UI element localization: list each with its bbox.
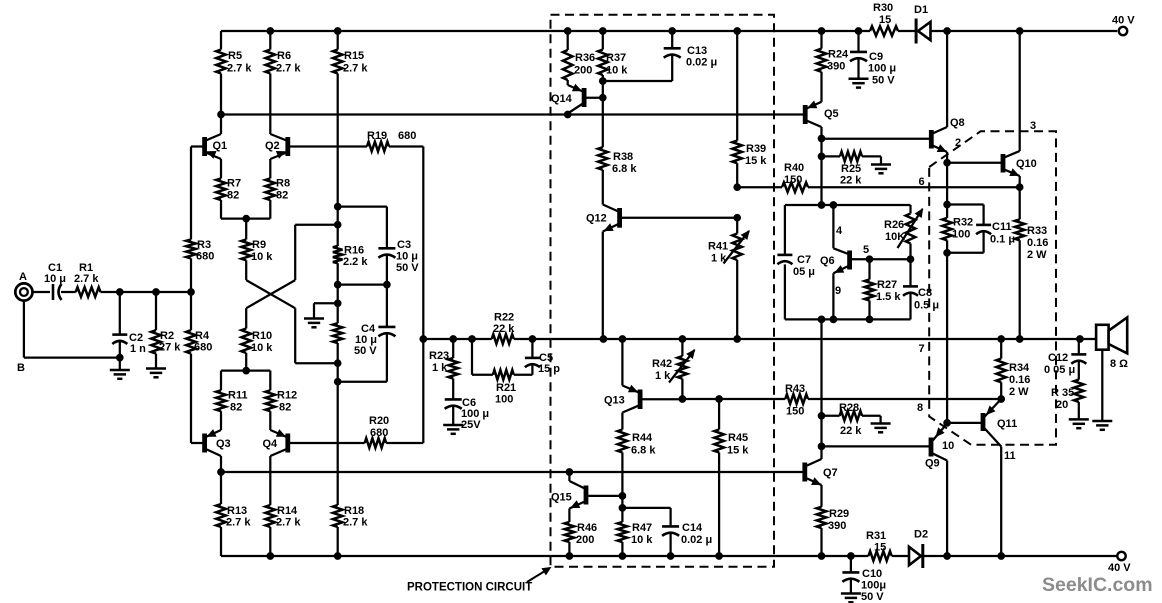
wire bias box to Q7 collector node bbox=[818, 319, 929, 449]
svg-text:Q10: Q10 bbox=[1016, 158, 1037, 170]
resistor R27 bbox=[865, 259, 902, 319]
svg-text:R5: R5 bbox=[228, 50, 242, 62]
svg-text:22 k: 22 k bbox=[840, 175, 862, 187]
capacitor C14 bbox=[622, 508, 712, 556]
resistor R9 bbox=[241, 219, 273, 281]
svg-text:R39: R39 bbox=[746, 143, 766, 155]
capacitor C12 bbox=[1044, 339, 1086, 380]
svg-text:0 05 μ: 0 05 μ bbox=[1044, 364, 1075, 376]
label B bbox=[17, 362, 25, 374]
svg-text:0.1 μ: 0.1 μ bbox=[990, 234, 1015, 246]
transistor Q2 bbox=[265, 134, 367, 178]
svg-text:R27: R27 bbox=[877, 279, 897, 291]
resistor R2 bbox=[151, 292, 181, 369]
svg-text:C12: C12 bbox=[1048, 352, 1068, 364]
svg-text:R43: R43 bbox=[785, 383, 805, 395]
resistor R6 bbox=[266, 31, 302, 134]
pin label 9 bbox=[835, 285, 841, 297]
resistor R11 bbox=[216, 390, 247, 428]
pin label 6 bbox=[919, 176, 925, 188]
svg-text:2.7 k: 2.7 k bbox=[276, 63, 301, 75]
svg-text:100μ: 100μ bbox=[861, 580, 886, 592]
transistor Q14 bbox=[551, 81, 606, 115]
svg-text:150: 150 bbox=[784, 174, 802, 186]
svg-text:10K: 10K bbox=[885, 231, 905, 243]
svg-text:Q3: Q3 bbox=[216, 438, 231, 450]
svg-text:R40: R40 bbox=[784, 162, 804, 174]
terminal A input bbox=[15, 283, 32, 300]
svg-text:D2: D2 bbox=[914, 529, 928, 541]
svg-text:R44: R44 bbox=[632, 432, 653, 444]
svg-text:1 k: 1 k bbox=[432, 362, 448, 374]
svg-text:R38: R38 bbox=[613, 151, 633, 163]
wire bottom -40V rail bbox=[221, 553, 1117, 560]
watermark SeekIC.com bbox=[1042, 574, 1153, 596]
wire top +40V rail bbox=[221, 28, 1117, 35]
svg-text:2.2 k: 2.2 k bbox=[343, 256, 368, 268]
svg-text:2.7 k: 2.7 k bbox=[74, 273, 99, 285]
ground under R35 bbox=[1069, 419, 1089, 428]
label PROTECTION CIRCUIT bbox=[407, 568, 551, 594]
svg-text:8 Ω: 8 Ω bbox=[1110, 358, 1128, 370]
svg-text:2.7 k: 2.7 k bbox=[276, 517, 301, 529]
rheostat R42 bbox=[652, 339, 695, 399]
capacitor C2 bbox=[112, 292, 146, 358]
capacitor C3 bbox=[378, 207, 419, 285]
resistor R35 bbox=[1051, 380, 1084, 420]
pin label 10 bbox=[942, 440, 954, 452]
resistor R20 bbox=[365, 339, 424, 448]
transistor Q10 bbox=[944, 31, 1037, 187]
svg-text:0.16: 0.16 bbox=[1009, 374, 1030, 386]
svg-text:15 k: 15 k bbox=[727, 445, 749, 457]
terminal +40V top bbox=[1119, 27, 1127, 35]
capacitor C7 bbox=[777, 254, 815, 278]
svg-text:C7: C7 bbox=[797, 254, 811, 266]
svg-text:R22: R22 bbox=[494, 312, 514, 324]
wire node-6 drive rail bbox=[734, 184, 1023, 191]
svg-text:2.7 k: 2.7 k bbox=[227, 63, 252, 75]
svg-text:C14: C14 bbox=[682, 522, 703, 534]
svg-text:10 k: 10 k bbox=[606, 65, 628, 77]
speaker bbox=[1096, 317, 1127, 421]
svg-text:R46: R46 bbox=[577, 522, 597, 534]
svg-text:5: 5 bbox=[863, 244, 869, 256]
svg-text:R45: R45 bbox=[728, 432, 748, 444]
svg-text:100: 100 bbox=[952, 229, 970, 241]
transistor Q9 bbox=[925, 424, 947, 557]
rheostat R26 bbox=[870, 205, 923, 263]
resistor R44 bbox=[618, 430, 657, 496]
resistor R29 bbox=[817, 507, 849, 556]
resistor R45 bbox=[714, 399, 749, 556]
svg-text:1.5 k: 1.5 k bbox=[876, 291, 901, 303]
svg-text:C11: C11 bbox=[992, 221, 1012, 233]
label 8 ohm bbox=[1110, 358, 1128, 370]
svg-text:R24: R24 bbox=[828, 49, 849, 61]
svg-text:R10: R10 bbox=[252, 330, 272, 342]
ground under R2 bbox=[146, 369, 166, 378]
svg-text:R4: R4 bbox=[195, 330, 210, 342]
capacitor C5 bbox=[525, 339, 560, 375]
resistor R33 bbox=[1015, 187, 1049, 339]
svg-text:R 35: R 35 bbox=[1051, 387, 1074, 399]
svg-text:Q14: Q14 bbox=[551, 93, 573, 105]
ground under C6 bbox=[443, 425, 463, 434]
svg-text:R15: R15 bbox=[344, 50, 364, 62]
wire R15 column junctions bbox=[314, 203, 390, 385]
svg-text:2 W: 2 W bbox=[1009, 386, 1029, 398]
svg-text:R11: R11 bbox=[228, 390, 248, 402]
resistor R1 bbox=[74, 262, 101, 297]
diode D1 bbox=[914, 4, 931, 44]
svg-text:100 μ: 100 μ bbox=[868, 63, 896, 75]
svg-text:R31: R31 bbox=[866, 530, 886, 542]
svg-text:9: 9 bbox=[835, 285, 841, 297]
transistor Q15 bbox=[551, 472, 626, 522]
pin label 3 bbox=[1030, 120, 1036, 132]
transistor Q13 bbox=[604, 339, 682, 430]
svg-text:R23: R23 bbox=[429, 350, 449, 362]
resistor R15 bbox=[333, 31, 368, 207]
resistor R43 bbox=[785, 383, 808, 418]
svg-text:Q4: Q4 bbox=[263, 438, 279, 450]
svg-text:R33: R33 bbox=[1027, 225, 1047, 237]
transistor Q3 bbox=[191, 428, 231, 473]
svg-text:R26: R26 bbox=[884, 219, 904, 231]
svg-text:200: 200 bbox=[574, 65, 592, 77]
svg-text:3: 3 bbox=[1030, 120, 1036, 132]
resistor R14 bbox=[266, 505, 302, 556]
svg-text:R6: R6 bbox=[277, 50, 291, 62]
wire R10 to R11/R12 bbox=[221, 367, 270, 390]
wire second rail (Q1 collector to Q5 base) bbox=[218, 111, 803, 118]
svg-text:Q6: Q6 bbox=[820, 255, 835, 267]
svg-text:R42: R42 bbox=[652, 358, 672, 370]
resistor R31 bbox=[866, 530, 892, 561]
svg-text:50 V: 50 V bbox=[872, 75, 895, 87]
svg-text:R34: R34 bbox=[1009, 362, 1030, 374]
label 40 V bottom bbox=[1108, 562, 1131, 574]
svg-text:1 n: 1 n bbox=[130, 343, 146, 355]
svg-text:6: 6 bbox=[919, 176, 925, 188]
resistor R30 bbox=[870, 2, 898, 36]
svg-text:15 k: 15 k bbox=[745, 155, 767, 167]
resistor R24 bbox=[817, 31, 849, 102]
resistor R22 bbox=[492, 312, 516, 344]
svg-text:R41: R41 bbox=[708, 241, 728, 253]
transistor Q8 bbox=[931, 31, 964, 163]
protection circuit dashed box bbox=[551, 15, 775, 567]
svg-text:8: 8 bbox=[917, 402, 923, 414]
svg-text:Q5: Q5 bbox=[824, 108, 839, 120]
transistor Q11 bbox=[944, 253, 1017, 556]
pin label 7 bbox=[919, 343, 925, 355]
svg-text:Q9: Q9 bbox=[925, 458, 940, 470]
capacitor C10 bbox=[842, 556, 886, 603]
capacitor C11 bbox=[947, 205, 1015, 253]
svg-text:Q15: Q15 bbox=[551, 492, 572, 504]
label 40 V top bbox=[1112, 15, 1135, 27]
svg-text:PROTECTION CIRCUIT: PROTECTION CIRCUIT bbox=[407, 582, 532, 594]
svg-text:82: 82 bbox=[279, 402, 291, 414]
resistor R19 bbox=[367, 130, 423, 339]
svg-text:0.16: 0.16 bbox=[1027, 237, 1048, 249]
svg-text:R13: R13 bbox=[227, 505, 247, 517]
wire R7/R8 emitter junction bbox=[221, 215, 270, 222]
ground at R28 bbox=[871, 424, 891, 433]
svg-text:2 W: 2 W bbox=[1027, 249, 1047, 261]
resistor R25 bbox=[822, 152, 882, 187]
svg-text:Q12: Q12 bbox=[586, 213, 607, 225]
resistor R16 bbox=[333, 245, 368, 285]
svg-text:Q2: Q2 bbox=[265, 140, 280, 152]
svg-text:R12: R12 bbox=[277, 390, 297, 402]
svg-text:C3: C3 bbox=[397, 239, 411, 251]
terminal -40V bottom bbox=[1117, 552, 1125, 560]
svg-text:27 k: 27 k bbox=[159, 342, 181, 354]
svg-text:10 μ: 10 μ bbox=[44, 273, 66, 285]
svg-text:15 p: 15 p bbox=[538, 363, 560, 375]
svg-text:2.7 k: 2.7 k bbox=[226, 517, 251, 529]
svg-text:B: B bbox=[17, 362, 25, 374]
svg-text:R20: R20 bbox=[369, 415, 389, 427]
bias module box bbox=[785, 202, 911, 323]
svg-text:C8: C8 bbox=[918, 287, 932, 299]
svg-text:R30: R30 bbox=[873, 2, 893, 14]
resistor R5 bbox=[216, 31, 252, 115]
svg-text:Q8: Q8 bbox=[950, 117, 965, 129]
svg-text:20: 20 bbox=[1056, 399, 1068, 411]
svg-text:0.5 μ: 0.5 μ bbox=[914, 300, 939, 312]
resistor R34 bbox=[996, 339, 1030, 399]
svg-text:R47: R47 bbox=[632, 522, 652, 534]
transistor Q5 bbox=[805, 101, 838, 138]
svg-text:R28: R28 bbox=[839, 402, 859, 414]
svg-text:1 k: 1 k bbox=[711, 253, 727, 265]
svg-text:R7: R7 bbox=[227, 178, 241, 190]
svg-text:C13: C13 bbox=[687, 45, 707, 57]
diode D2 bbox=[909, 529, 928, 569]
svg-text:200: 200 bbox=[576, 534, 594, 546]
svg-text:50 V: 50 V bbox=[861, 591, 884, 603]
resistor R4 bbox=[186, 292, 212, 443]
capacitor C13 bbox=[603, 31, 717, 81]
svg-text:R14: R14 bbox=[277, 505, 298, 517]
capacitor C1 bbox=[44, 262, 66, 300]
resistor R36 bbox=[563, 31, 595, 85]
resistor R32 bbox=[942, 163, 973, 256]
svg-text:Q11: Q11 bbox=[997, 418, 1017, 430]
svg-text:100: 100 bbox=[495, 394, 513, 406]
svg-text:Q1: Q1 bbox=[213, 140, 228, 152]
svg-text:82: 82 bbox=[227, 190, 239, 202]
svg-text:10 k: 10 k bbox=[251, 251, 273, 263]
resistor R13 bbox=[216, 472, 251, 556]
resistor R3 bbox=[186, 149, 214, 292]
resistor R39 bbox=[732, 31, 767, 187]
svg-text:R32: R32 bbox=[953, 217, 973, 229]
svg-text:22 k: 22 k bbox=[493, 323, 515, 335]
svg-text:10 k: 10 k bbox=[631, 534, 653, 546]
svg-text:82: 82 bbox=[230, 402, 242, 414]
wire cross-coupled pair bbox=[246, 221, 341, 366]
svg-text:0.02 μ: 0.02 μ bbox=[686, 57, 717, 69]
svg-text:4: 4 bbox=[836, 225, 843, 237]
pin label 8 bbox=[917, 402, 923, 414]
svg-text:R3: R3 bbox=[197, 239, 211, 251]
capacitor C9 bbox=[850, 31, 896, 87]
resistor R21 bbox=[472, 339, 532, 406]
resistor R38 bbox=[598, 98, 637, 205]
svg-text:10 k: 10 k bbox=[251, 342, 273, 354]
transistor Q1 bbox=[191, 115, 227, 179]
svg-text:R18: R18 bbox=[344, 505, 364, 517]
ground at R16 node bbox=[304, 303, 324, 327]
svg-text:R2: R2 bbox=[160, 330, 174, 342]
wire input line A to R3/R4 node bbox=[33, 289, 195, 296]
svg-text:50 V: 50 V bbox=[396, 262, 419, 274]
pin label 4 bbox=[836, 225, 843, 237]
resistor R23 bbox=[429, 339, 458, 399]
svg-text:7: 7 bbox=[919, 343, 925, 355]
transistor Q12 bbox=[586, 205, 741, 340]
ground under speaker bbox=[1092, 421, 1112, 430]
wire input return B bbox=[24, 301, 123, 361]
svg-text:10: 10 bbox=[942, 440, 954, 452]
pin label 2 bbox=[955, 137, 961, 149]
svg-text:6.8 k: 6.8 k bbox=[631, 445, 656, 457]
svg-text:C10: C10 bbox=[862, 568, 882, 580]
svg-text:2.7 k: 2.7 k bbox=[343, 63, 368, 75]
resistor R40 bbox=[782, 162, 808, 192]
svg-text:10 μ: 10 μ bbox=[396, 251, 418, 263]
capacitor C4 bbox=[354, 285, 395, 382]
svg-text:R36: R36 bbox=[575, 52, 595, 64]
svg-text:SeekIC.com: SeekIC.com bbox=[1042, 574, 1153, 596]
resistor R7 bbox=[216, 178, 241, 219]
svg-text:22 k: 22 k bbox=[840, 425, 862, 437]
resistor R37 bbox=[598, 31, 628, 84]
label A bbox=[19, 271, 27, 283]
svg-text:11: 11 bbox=[1004, 450, 1016, 462]
svg-text:1 k: 1 k bbox=[655, 370, 671, 382]
resistor R10 bbox=[241, 308, 273, 370]
svg-text:R37: R37 bbox=[606, 52, 626, 64]
pin label 11 bbox=[1004, 450, 1016, 462]
svg-text:Q13: Q13 bbox=[604, 395, 625, 407]
ground under C9 bbox=[849, 79, 869, 88]
resistor R12 bbox=[266, 390, 298, 428]
svg-text:15: 15 bbox=[874, 542, 886, 554]
ground at R25 bbox=[871, 165, 891, 174]
pin label 5 bbox=[863, 244, 869, 256]
ground under C2 bbox=[110, 358, 130, 379]
svg-text:D1: D1 bbox=[914, 4, 928, 16]
svg-text:680: 680 bbox=[398, 130, 416, 142]
svg-text:R25: R25 bbox=[841, 163, 861, 175]
svg-text:40 V: 40 V bbox=[1112, 15, 1135, 27]
svg-text:15: 15 bbox=[879, 14, 891, 26]
capacitor C8 bbox=[903, 259, 939, 319]
svg-text:R9: R9 bbox=[252, 239, 266, 251]
resistor R46 bbox=[565, 522, 598, 556]
svg-text:50 V: 50 V bbox=[354, 345, 377, 357]
resistor R17 bbox=[333, 303, 343, 363]
wire Q5 collector node bbox=[818, 135, 929, 205]
transistor Q6 bbox=[820, 205, 873, 319]
svg-text:150: 150 bbox=[786, 406, 804, 418]
svg-text:C9: C9 bbox=[869, 51, 883, 63]
resistor R28 bbox=[822, 402, 881, 437]
resistor R8 bbox=[266, 178, 291, 219]
transistor Q7 bbox=[805, 446, 838, 506]
transistor Q4 bbox=[263, 428, 365, 506]
resistor R18 bbox=[333, 382, 368, 556]
svg-text:40 V: 40 V bbox=[1108, 562, 1131, 574]
svg-text:R8: R8 bbox=[276, 178, 290, 190]
svg-text:680: 680 bbox=[370, 427, 388, 439]
svg-text:680: 680 bbox=[196, 251, 214, 263]
wire mid output rail (node 7) bbox=[420, 336, 1096, 343]
svg-text:05 μ: 05 μ bbox=[793, 266, 815, 278]
svg-text:82: 82 bbox=[276, 190, 288, 202]
rheostat R41 bbox=[708, 218, 749, 339]
svg-text:390: 390 bbox=[828, 520, 846, 532]
svg-text:R16: R16 bbox=[344, 245, 364, 257]
capacitor C6 bbox=[445, 397, 489, 431]
svg-text:0.02 μ: 0.02 μ bbox=[681, 534, 712, 546]
svg-text:A: A bbox=[19, 271, 27, 283]
resistor R47 bbox=[618, 496, 654, 556]
power module dashed outline bbox=[929, 131, 1056, 445]
svg-text:R19: R19 bbox=[367, 130, 387, 142]
svg-text:R29: R29 bbox=[829, 508, 849, 520]
ground under C10 bbox=[841, 594, 861, 603]
svg-text:680: 680 bbox=[194, 342, 212, 354]
wire feedback rail (Q3/Q4 collectors to Q7 base) bbox=[218, 469, 803, 476]
svg-text:6.8 k: 6.8 k bbox=[612, 163, 637, 175]
svg-text:25V: 25V bbox=[461, 419, 481, 431]
svg-text:Q7: Q7 bbox=[823, 467, 838, 479]
svg-text:R21: R21 bbox=[496, 382, 516, 394]
svg-text:390: 390 bbox=[827, 61, 845, 73]
wire node-8 rail bbox=[679, 396, 1005, 403]
svg-text:2.7 k: 2.7 k bbox=[343, 517, 368, 529]
